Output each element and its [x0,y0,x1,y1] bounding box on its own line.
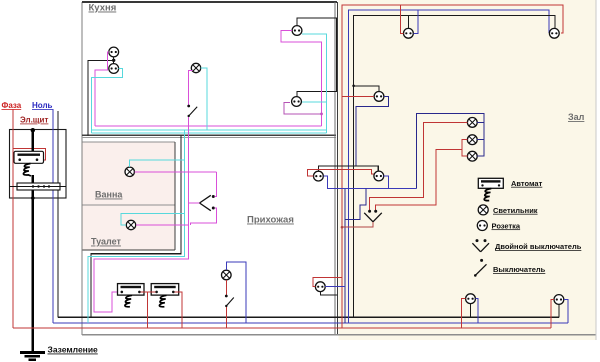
wire blue net P1 drop [323,176,416,188]
wire ground thick conductor lower [32,175,34,353]
svg-text:Кухня: Кухня [89,3,117,14]
wire magenta bath lamp [135,171,217,173]
svg-text:Фаза: Фаза [2,101,22,110]
double switch zal [364,210,382,222]
wire red socket Z4 [461,299,465,329]
socket Z4 zal bottom [466,294,476,304]
breaker B1 bottom [118,284,145,296]
breaker in panel (автомат) [14,151,44,163]
wire plum socket K4 feed [284,102,322,114]
socket K2 kitchen [109,64,119,74]
wire blue staircase to zal switch [345,189,366,220]
ground symbol [20,353,45,360]
room Ванна/Туалет fill [83,142,176,250]
wire link K1-K2 [113,57,115,64]
socket K3 kitchen right top [292,26,302,36]
wall building left [81,2,83,335]
wire PE black vertical right of panel [57,111,59,317]
double switch bath/toilet [200,195,215,211]
socket Z1 zal top left [404,28,414,38]
svg-text:Прихожая: Прихожая [247,215,294,226]
wire blue chandelier stub 1 [477,121,484,123]
socket K4 kitchen right bottom [292,97,302,107]
wire magenta toilet lamp [136,224,189,226]
terminal strip in panel [10,183,67,190]
wire PE black zal trunk top corner [354,15,555,317]
wire magenta switch loop top [215,172,217,197]
wire magenta below kitchen switch [188,117,190,126]
svg-text:Ноль: Ноль [32,101,53,110]
socket Z5 zal bottom right [554,295,564,305]
legend switch symbol [474,259,487,277]
breaker B1 spring [125,295,132,307]
socket P2 hallway bottom [315,282,325,292]
svg-text:Розетка: Розетка [492,221,521,230]
wall building bottom [82,334,596,336]
wire red zal switch feed [342,222,373,227]
wire magenta socket K1 [95,52,109,126]
wire red socket P2 [313,278,342,287]
wire PE black to sockets K1 K2 [88,60,114,135]
wire blue socket Z3 [356,96,389,166]
wire PE black net P1-Z6 [318,166,378,172]
wire cyan toilet lamp [121,213,185,225]
wire PE black socket Z1 stub [407,15,409,28]
wire blue socket Z5 [564,300,568,324]
wire ground thick conductor upper [32,130,34,152]
wire red below hallway switch [225,307,227,328]
wire cyan kitchen bundle 2 [91,132,326,134]
wire cyan kitchen bundle 1 [91,129,326,131]
node junction K4 feed [320,113,323,116]
svg-text:Заземление: Заземление [48,345,99,355]
wire PE black bottom bundle [58,316,559,318]
wire red breaker riser 2 [175,292,183,328]
wire magenta kitchen bundle [95,125,322,127]
wire blue zal trunk 1 [344,189,346,324]
wall kitchen bottom / hallway top [82,134,336,136]
node junction K1-K2 [112,59,115,62]
socket K1 kitchen [109,47,119,57]
wall bath/toilet divider [83,204,176,206]
wire phase red bottom bundle [13,327,551,329]
wire blue hallway lamp [226,262,246,323]
wire blue Z6 drop [384,176,389,189]
wire blue socket Z4 [475,299,478,323]
wire blue chandelier [416,114,484,189]
wire red zal trunk 1 [342,5,563,328]
breaker B2 bottom [151,284,179,296]
node PE junction Z3 [352,85,355,88]
wire PE black socket Z4 stub [470,304,472,318]
wall bath top border [83,141,176,143]
wire phase red branch into breaker [13,149,46,160]
legend double switch symbol [472,239,489,252]
wire magenta switch loop bottom [191,208,217,225]
wall toilet bottom border [83,249,176,251]
wire cyan bath trunk [88,130,185,323]
wire magenta switch apex feed [189,202,200,204]
wire PE black socket P2 [320,292,337,296]
lamp hallway [222,270,232,280]
wire blue chandelier stub 2 [477,139,484,141]
legend socket symbol [477,221,487,231]
wire magenta kitchen lamp drop [189,71,193,106]
lamp toilet [126,220,135,229]
wire magenta bath trunk [94,126,189,312]
wire blue socket Z1 [413,10,418,34]
wire PE black socket Z5 stub [558,304,560,317]
node panel bottom junction [31,196,35,200]
wire red chandelier bracket [462,140,468,157]
wire cyan socket K2 [91,69,122,133]
lamp bathroom [125,167,134,176]
wire red socket Z5 [551,300,554,329]
svg-text:Светильник: Светильник [493,206,538,215]
wire PE black socket Z3 [354,86,379,92]
wire magenta K3 K4 loop [281,31,322,127]
wire red chandelier lamps 2-3 [376,149,462,210]
legend lamp symbol [478,205,488,215]
lamp chandelier 1 [467,118,477,128]
wall bath right border [174,142,176,250]
wire neutral blue vertical from Ноль label [52,109,54,323]
svg-text:Ванна: Ванна [95,190,123,200]
socket P1 hallway [314,171,324,181]
node red junction switch feed [341,226,344,229]
wire blue zal trunk 2 top corner [348,10,549,323]
wall kitchen bottom second line [82,137,336,139]
breaker B2 spring [159,295,166,307]
lamp chandelier 2 [467,135,477,145]
switch kitchen [187,105,197,118]
wire cyan K3 K4 loop [302,34,327,133]
wire neutral blue bottom bundle [53,322,568,324]
wall hallway/zal vertical outer [334,2,336,335]
wire cyan kitchen lamp drop [201,68,207,130]
socket Z2 zal top right [549,28,559,38]
wall zal right edge [595,0,597,340]
room Зал fill [339,0,597,340]
wire cyan K4 stub [302,101,327,103]
wire red hallway lamp to switch [225,280,227,295]
node panel top junction [31,128,35,132]
socket Z3 zal middle [374,92,384,102]
legend breaker spring [484,189,491,201]
wire phase red vertical from Фаза label [12,109,14,328]
wire red socket Z3 [342,95,374,97]
svg-text:Автомат: Автомат [511,179,543,188]
wire PE black bath trunk [91,135,181,317]
legend breaker symbol [478,178,503,188]
wire red socket Z1 [401,5,404,33]
svg-text:Двойной выключатель: Двойной выключатель [495,242,582,251]
socket Z6 zal [374,171,384,181]
электрощит panel box [10,130,67,199]
wire red net P1-Z6 [307,169,374,176]
wire red chandelier lamp1 [370,122,468,210]
svg-text:Выключатель: Выключатель [493,265,546,274]
wall kitchen top [82,1,337,3]
lamp chandelier 3 [467,151,477,161]
breaker spring squiggle [23,164,31,177]
wire red breaker jumper [141,291,156,293]
lamp kitchen [191,63,200,72]
wall hallway/zal vertical inner [337,2,339,335]
svg-text:Туалет: Туалет [91,237,122,247]
wire blue socket P2 [325,286,345,288]
svg-text:Эл.щит: Эл.щит [20,116,48,125]
wire cyan bath lamp [130,160,185,167]
wire red breaker riser 1 [146,292,148,328]
wire PE black K3 K4 loop [297,18,336,97]
switch hallway [225,295,234,308]
svg-text:Зал: Зал [568,112,585,122]
